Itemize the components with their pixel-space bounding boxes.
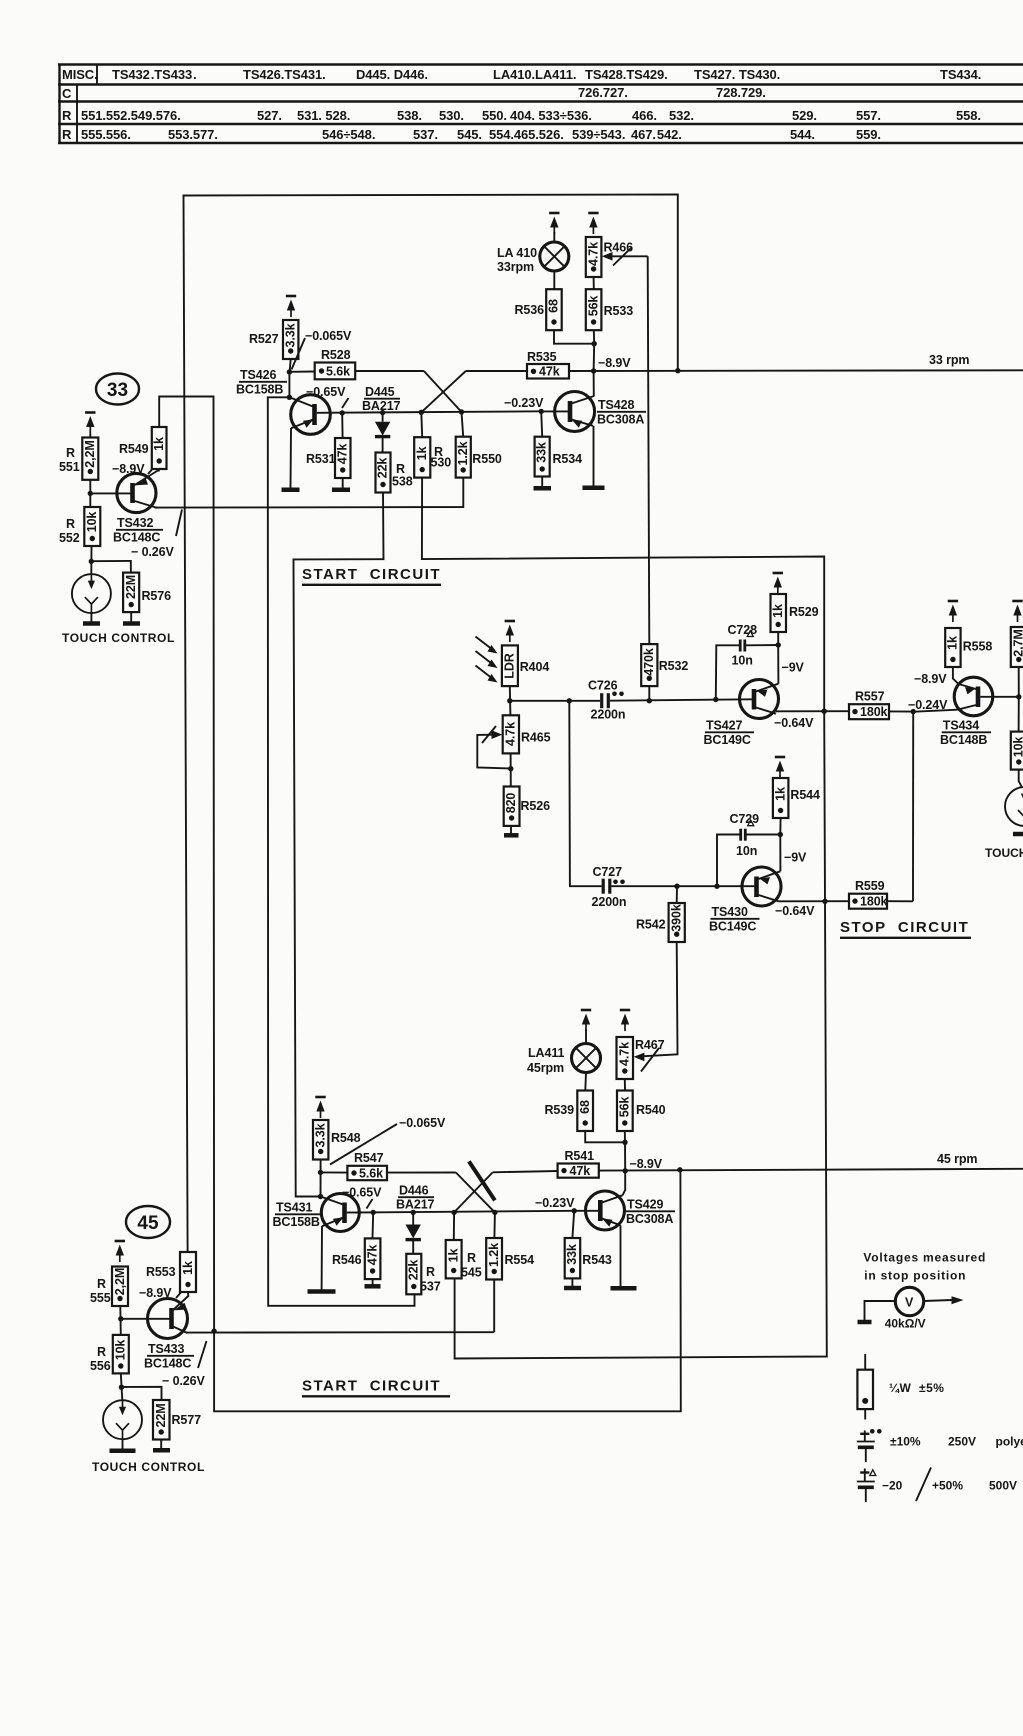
voltage -0.065V at TS426 — [292, 329, 352, 370]
wire TS427 collector up — [777, 645, 779, 684]
svg-text:−0.65V: −0.65V — [306, 385, 346, 399]
resistor R559 180k — [849, 894, 888, 909]
svg-text:728.729.: 728.729. — [716, 85, 766, 100]
node R531 tap — [340, 410, 345, 415]
node R529/C728/TS427 — [776, 642, 781, 647]
svg-text:R548: R548 — [331, 1131, 361, 1145]
wire 45rpm rail right — [599, 1169, 1023, 1171]
wire R559 right up to node — [887, 900, 913, 902]
svg-text:R534: R534 — [553, 452, 583, 466]
node R544/C729/TS430 — [778, 832, 783, 837]
svg-text:33rpm: 33rpm — [497, 260, 534, 274]
svg-text:555: 555 — [90, 1291, 111, 1305]
resistor R537 22k — [406, 1254, 421, 1295]
wire TS430 emitter rail — [779, 900, 850, 902]
svg-text:BC148B: BC148B — [940, 733, 987, 747]
svg-text:33: 33 — [107, 380, 128, 401]
svg-text:47k: 47k — [539, 365, 560, 379]
svg-text:TS432: TS432 — [117, 516, 153, 530]
ground R526 — [504, 833, 519, 838]
svg-text:R533: R533 — [604, 304, 634, 318]
svg-text:−0.23V: −0.23V — [504, 396, 544, 410]
svg-text:LA410.LA411.: LA410.LA411. — [493, 67, 576, 82]
svg-text:−0.64V: −0.64V — [774, 716, 814, 730]
label R 555 — [90, 1277, 111, 1305]
svg-text:R549: R549 — [119, 442, 149, 456]
svg-text:2,2M: 2,2M — [83, 440, 97, 467]
label R 545 — [461, 1251, 482, 1280]
resistor R549 1k — [152, 427, 167, 469]
svg-text:R543: R543 — [582, 1253, 612, 1267]
svg-text:R535: R535 — [527, 350, 557, 364]
svg-text:R: R — [467, 1251, 476, 1265]
resistor R528 5.6k — [289, 363, 355, 380]
capacitor C728 10n — [728, 623, 758, 668]
svg-text:−8.9V: −8.9V — [112, 462, 145, 476]
transistor TS433 — [148, 1296, 189, 1339]
svg-text:LDR: LDR — [503, 653, 517, 678]
svg-text:−8.9V: −8.9V — [914, 672, 947, 686]
svg-text:R: R — [66, 517, 75, 531]
svg-text:3.3k: 3.3k — [314, 1123, 328, 1147]
wire R467 to R540 — [624, 1079, 626, 1091]
svg-text:TS428: TS428 — [598, 398, 634, 412]
resistor R550 1.2k — [456, 412, 471, 478]
resistor R543 33k — [565, 1211, 581, 1286]
wire TS427 emitter rail — [776, 710, 849, 712]
table row MISC labels — [62, 67, 981, 82]
label D446 BA217 — [396, 1184, 435, 1212]
wire 33rpm rail — [569, 369, 1023, 372]
svg-text:500V: 500V — [989, 1479, 1017, 1493]
svg-text:D445: D445 — [365, 385, 395, 399]
svg-text:552: 552 — [59, 531, 80, 545]
svg-text:33k: 33k — [565, 1244, 579, 1265]
voltage -8.9V at TS432 — [112, 462, 155, 476]
svg-text:BC149C: BC149C — [704, 733, 751, 747]
svg-text:45 rpm: 45 rpm — [937, 1152, 977, 1166]
svg-text:R550: R550 — [472, 452, 502, 466]
svg-text:1k: 1k — [181, 1261, 195, 1275]
wire R538 to start-box left drop — [294, 493, 384, 1197]
resistor R558 1k — [945, 628, 960, 667]
supply rail symbol above R529 — [773, 573, 783, 594]
svg-text:551.552.549.576.: 551.552.549.576. — [81, 108, 181, 123]
ground TS431 — [308, 1289, 336, 1294]
svg-text:− 0.26V: − 0.26V — [131, 545, 175, 559]
voltage -8.9V at TS433 — [139, 1286, 183, 1300]
svg-text:550.: 550. — [482, 108, 507, 123]
svg-text:−8.9V: −8.9V — [630, 1157, 663, 1171]
svg-text:180k: 180k — [860, 895, 888, 909]
wire branch to R576 — [91, 561, 131, 573]
node R542 top — [674, 884, 679, 889]
supply rail symbol above LA411 — [581, 1010, 591, 1031]
wire TS426 base rail — [317, 411, 542, 413]
node TS434 base divider — [1016, 694, 1021, 699]
svg-text:545: 545 — [461, 1266, 482, 1280]
wire R556 to touch node — [121, 1373, 123, 1400]
svg-text:5.6k: 5.6k — [326, 365, 350, 379]
supply rail symbol above R467 — [620, 1010, 630, 1031]
crossover slash mark — [469, 1161, 495, 1200]
svg-text:−20: −20 — [882, 1479, 903, 1493]
svg-text:TS426.TS431.: TS426.TS431. — [243, 67, 326, 82]
wire R555-R556 with base tap — [119, 1306, 122, 1335]
wire C727 to TS430 base — [612, 885, 755, 887]
resistor R577 22M — [153, 1400, 170, 1440]
node R527/R528 — [287, 369, 292, 374]
light arrows at LDR — [476, 637, 498, 683]
svg-text:56k: 56k — [586, 296, 600, 317]
svg-text:1k: 1k — [773, 787, 787, 801]
svg-text:22k: 22k — [407, 1260, 421, 1281]
label TS428 BC308A — [597, 398, 646, 427]
wire node to 10k — [1018, 697, 1020, 732]
svg-text:R542: R542 — [636, 918, 666, 932]
svg-text:−8.9V: −8.9V — [598, 356, 631, 370]
supply rail symbol above LA410 — [549, 213, 559, 234]
svg-text:BA217: BA217 — [396, 1198, 435, 1212]
ground touch right — [1013, 832, 1023, 837]
node LDR/C726 — [507, 698, 512, 703]
svg-text:390k: 390k — [669, 904, 683, 932]
svg-text:R532: R532 — [659, 659, 689, 673]
svg-text:537.: 537. — [413, 127, 438, 142]
svg-text:−0.64V: −0.64V — [775, 904, 815, 918]
svg-text:530: 530 — [431, 456, 452, 470]
resistor R539 68 — [577, 1091, 593, 1132]
label START CIRCUIT top — [302, 566, 441, 585]
svg-text:TS427: TS427 — [706, 719, 742, 733]
wire TS428 base — [541, 410, 568, 412]
node R532 bottom — [647, 698, 652, 703]
legend resistor symbol — [857, 1354, 873, 1420]
svg-text:R404: R404 — [520, 660, 550, 674]
svg-text:C727: C727 — [593, 865, 623, 879]
wire node down to R559 — [912, 712, 914, 902]
resistor R556 10k — [113, 1335, 129, 1374]
svg-text:D445. D446.: D445. D446. — [356, 67, 428, 82]
resistor R557 180k — [849, 704, 889, 719]
svg-text:68: 68 — [578, 1100, 592, 1114]
svg-text:TS427. TS430.: TS427. TS430. — [694, 67, 780, 82]
svg-text:470k: 470k — [642, 648, 656, 676]
wire TS429 emitter to ground — [620, 1225, 622, 1286]
resistor R552 10k — [84, 507, 100, 546]
wire TS428 emitter to ground — [593, 426, 595, 486]
resistor R540 56k — [617, 1091, 633, 1132]
transistor TS426 — [289, 395, 330, 435]
resistor R536 68 — [546, 289, 562, 330]
wire C727 branch — [569, 701, 601, 886]
node C727 branch — [567, 698, 572, 703]
resistor 10k right — [1011, 732, 1023, 770]
svg-text:45rpm: 45rpm — [527, 1061, 564, 1075]
wire TS433 emitter rail — [187, 1331, 495, 1333]
svg-text:56k: 56k — [618, 1097, 632, 1118]
svg-text:558.: 558. — [956, 108, 981, 123]
transistor TS431 — [321, 1194, 360, 1232]
wire R557 to TS434 node — [889, 710, 914, 712]
svg-text:538.: 538. — [397, 108, 422, 123]
label R 551 — [59, 446, 80, 474]
svg-text:R553: R553 — [146, 1265, 176, 1279]
resistor R529 1k — [771, 594, 787, 645]
node emitter/chain — [822, 899, 827, 904]
diode D445 — [375, 413, 390, 453]
wire TS428 collector up — [593, 371, 595, 396]
svg-text:250V: 250V — [948, 1435, 976, 1449]
wire TS426 emitter to ground — [290, 428, 293, 488]
node D445 anode — [380, 410, 385, 415]
label LA411 45rpm — [527, 1046, 564, 1075]
wire lamp to R539 — [584, 1073, 587, 1091]
wire base TS433 — [121, 1318, 170, 1320]
svg-text:TS433: TS433 — [148, 1342, 184, 1356]
transistor TS427 — [740, 680, 779, 719]
node emitter/R530-chain — [822, 709, 827, 714]
node touch45 — [119, 1385, 124, 1390]
wire C728 right to collector node — [746, 644, 778, 646]
wire C729 left to base — [717, 835, 740, 887]
supply rail symbol above R551 — [85, 413, 95, 434]
svg-text:2,2M: 2,2M — [113, 1268, 127, 1295]
svg-text:22k: 22k — [376, 458, 390, 479]
svg-text:47k: 47k — [336, 444, 350, 465]
label TS429 BC308A — [626, 1198, 675, 1227]
capacitor C726 2200n — [588, 679, 625, 722]
svg-text:R559: R559 — [855, 879, 885, 893]
svg-text:68: 68 — [547, 299, 561, 313]
table row C — [62, 85, 766, 101]
wire TS431 emitter to ground — [321, 1226, 323, 1290]
ground R534 — [534, 486, 552, 491]
svg-text:466.: 466. — [632, 108, 657, 123]
svg-text:R546: R546 — [332, 1253, 362, 1267]
wire 33 cross-coupling box — [184, 195, 678, 1253]
svg-text:1k: 1k — [152, 437, 166, 451]
crossover diagonals top — [421, 371, 466, 412]
node C728 branch — [713, 697, 718, 702]
svg-text:TS429: TS429 — [627, 1198, 663, 1212]
svg-text:TS428.TS429.: TS428.TS429. — [585, 67, 668, 82]
touch plate symbol 45 — [103, 1400, 142, 1439]
trimmer R467 4.7k — [617, 1037, 634, 1079]
svg-text:2200n: 2200n — [592, 895, 627, 909]
wire TS431 base rail — [355, 1211, 574, 1213]
svg-text:polye: polye — [996, 1435, 1023, 1449]
wiper R465 — [477, 726, 511, 769]
resistor R535 47k — [527, 364, 569, 379]
wire R548 down to TS431 — [320, 1160, 322, 1199]
svg-text:45: 45 — [137, 1213, 159, 1234]
wire R536/R533 join — [554, 330, 594, 371]
wire R547 right — [387, 1172, 456, 1174]
svg-text:R466: R466 — [604, 241, 634, 255]
label R 530 — [431, 445, 452, 470]
svg-text:559.: 559. — [856, 127, 881, 142]
wiper arrow R466 — [602, 248, 648, 266]
svg-text:R: R — [62, 108, 72, 123]
supply rail symbol above R466 — [588, 213, 598, 234]
resistor R532 470k — [641, 644, 657, 701]
wire C728 left to base — [716, 645, 739, 699]
resistor R541 47k — [558, 1164, 599, 1179]
supply rail symbol above R544 — [775, 757, 785, 778]
svg-text:553.577.: 553.577. — [168, 127, 218, 142]
resistor R554 1.2k — [486, 1212, 502, 1279]
capacitor C727 2200n — [592, 865, 627, 909]
label TS434 BC148B — [940, 719, 991, 748]
svg-text:R529: R529 — [789, 605, 819, 619]
svg-text:R540: R540 — [636, 1103, 666, 1117]
trimmer R466 4.7k — [586, 237, 602, 277]
wire rail to R535 — [466, 370, 527, 372]
label TS432 BC148C — [113, 516, 163, 545]
svg-text:−0.065V: −0.065V — [399, 1116, 446, 1130]
svg-text:±10%: ±10% — [890, 1435, 921, 1449]
svg-text:TOUCH CONTROL: TOUCH CONTROL — [62, 631, 175, 645]
wire collector node left and long drop to R537 — [268, 397, 415, 1306]
label R 538 — [392, 462, 413, 489]
svg-text:544.: 544. — [790, 127, 815, 142]
svg-text:TS430: TS430 — [712, 905, 748, 919]
table row R1 — [62, 108, 981, 123]
trimmer R465 4.7k — [503, 715, 519, 753]
wire R539/R540 join to rail — [585, 1131, 625, 1171]
svg-text:47k: 47k — [570, 1164, 591, 1178]
label 10% 250V poly — [890, 1435, 1023, 1449]
svg-text:10k: 10k — [85, 512, 99, 533]
wire 10k to touch — [1019, 770, 1022, 787]
wire TS434 base lead — [914, 710, 957, 712]
ground touch33 — [83, 613, 100, 623]
svg-text:TS434.: TS434. — [940, 67, 981, 82]
node R539/R540 — [622, 1140, 627, 1145]
node TS433 base — [118, 1316, 123, 1321]
svg-text:532.: 532. — [669, 108, 694, 123]
wire C729 right to collector node — [747, 834, 781, 836]
svg-text:10k: 10k — [114, 1340, 128, 1361]
svg-text:BC158B: BC158B — [273, 1215, 320, 1229]
svg-text:554.465.526.: 554.465.526. — [489, 127, 564, 142]
svg-text:R541: R541 — [565, 1149, 595, 1163]
wire TS430 collector up — [779, 835, 781, 872]
wiper arrow R467 — [634, 1048, 659, 1072]
svg-text:R577: R577 — [172, 1413, 202, 1427]
svg-text:R544: R544 — [790, 788, 820, 802]
voltage -0.065V bottom — [330, 1116, 446, 1165]
wire branch to R577 — [122, 1387, 162, 1400]
svg-text:V: V — [905, 1296, 914, 1310]
svg-text:−9V: −9V — [782, 661, 805, 675]
svg-text:R527: R527 — [249, 332, 279, 346]
svg-text:R539: R539 — [545, 1103, 575, 1117]
svg-text:R547: R547 — [354, 1151, 384, 1165]
svg-text:STOP CIRCUIT: STOP CIRCUIT — [840, 919, 969, 936]
svg-text:40kΩ/V: 40kΩ/V — [885, 1317, 926, 1331]
supply rail symbol above 2.7M — [1012, 601, 1022, 622]
resistor 2.7M — [1011, 627, 1023, 697]
node R550 tap — [459, 409, 464, 414]
wire TS429 collector up — [623, 1171, 626, 1195]
transistor TS430 — [742, 867, 781, 906]
resistor R544 1k — [773, 778, 789, 835]
label -20 +50% 500V — [882, 1468, 1017, 1502]
label TS430 BC149C — [709, 905, 760, 934]
svg-text:BC158B: BC158B — [236, 383, 283, 397]
ground R531 — [332, 488, 350, 493]
svg-text:R536: R536 — [515, 303, 545, 317]
node R536/R533 — [592, 341, 597, 346]
wire R552 to touch node — [90, 546, 92, 574]
node rail/R549-drop — [211, 1329, 216, 1334]
label TS426 BC158B — [236, 368, 287, 397]
svg-text:−0.065V: −0.065V — [305, 329, 352, 343]
svg-text:R: R — [66, 446, 75, 460]
node TS426 collector — [287, 395, 292, 400]
wire R465 bottom — [510, 753, 512, 786]
svg-text:545.: 545. — [457, 127, 482, 142]
resistor R531 47k — [335, 413, 351, 488]
resistor R576 22M — [123, 573, 139, 613]
svg-text:33 rpm: 33 rpm — [929, 353, 969, 367]
label TS433 BC148C — [144, 1342, 194, 1371]
svg-text:555.556.: 555.556. — [81, 127, 131, 142]
supply rail symbol above R548 — [315, 1097, 325, 1118]
svg-text:551: 551 — [59, 460, 80, 474]
resistor R538 22k — [376, 453, 391, 493]
resistor R545 1k — [446, 1212, 462, 1278]
svg-text:BC148C: BC148C — [144, 1357, 191, 1371]
svg-text:−8.9V: −8.9V — [139, 1286, 172, 1300]
ground TS426 — [282, 488, 300, 493]
LDR R404 — [502, 645, 518, 686]
lamp LA410 — [540, 232, 569, 271]
svg-text:22M: 22M — [154, 1403, 168, 1427]
ground touch45 — [110, 1439, 136, 1451]
label R 552 — [59, 517, 80, 545]
svg-text:4.7k: 4.7k — [586, 242, 600, 266]
resistor R526 820 — [504, 787, 520, 834]
node 33 label ellipse — [96, 374, 139, 405]
svg-text:TOUCH: TOUCH — [985, 846, 1023, 860]
node C729 tap — [714, 884, 719, 889]
svg-text:−0.65V: −0.65V — [342, 1186, 382, 1200]
svg-text:TS431: TS431 — [276, 1201, 312, 1215]
svg-text:R576: R576 — [142, 589, 172, 603]
node R530 tap — [419, 410, 424, 415]
wire R528 right — [355, 370, 424, 372]
svg-text:2,7M: 2,7M — [1012, 629, 1023, 656]
svg-text:−9V: −9V — [784, 851, 807, 865]
svg-text:LA411: LA411 — [528, 1046, 564, 1060]
label R 537 — [420, 1265, 441, 1294]
resistor R542 390k — [669, 886, 685, 942]
label R 556 — [90, 1345, 111, 1373]
node 45 label ellipse — [126, 1206, 170, 1238]
node TS432 base — [88, 491, 93, 496]
node R465/R526 — [508, 766, 513, 771]
svg-text:START CIRCUIT: START CIRCUIT — [302, 566, 441, 583]
svg-text:BC148C: BC148C — [113, 531, 160, 545]
resistor R555 2.2M — [112, 1267, 128, 1307]
svg-text:C: C — [62, 86, 72, 101]
svg-text:TOUCH CONTROL: TOUCH CONTROL — [92, 1460, 205, 1474]
svg-text:10n: 10n — [736, 844, 757, 858]
resistor R534 33k — [535, 411, 550, 486]
